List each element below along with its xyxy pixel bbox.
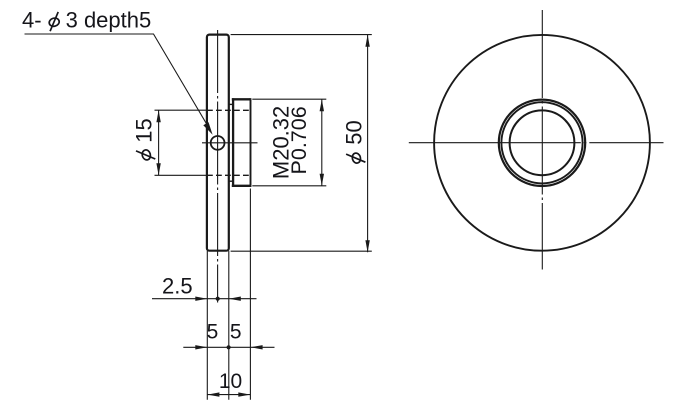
phi15 dimension extension lines [155,109,208,111]
disc outline side view [207,35,229,251]
bore hidden line bottom [207,174,250,176]
front view outer circle [434,35,650,251]
svg-text:3 depth5: 3 depth5 [66,7,152,32]
extension line D boss right face [249,189,251,400]
svg-text:10: 10 [219,370,242,393]
dimension 2.5 right-pointing arrow [195,297,207,301]
svg-text:15: 15 [132,118,157,142]
phi15 arrow down [156,163,160,175]
thread minor circle [501,102,582,183]
phi50 arrow down [365,240,369,252]
hole center plane vertical centerline [217,30,219,303]
svg-text:P0.706: P0.706 [287,106,311,174]
dimension 10 right arrow [238,392,250,396]
side view horizontal centerline [202,142,258,144]
bore hidden line top [207,109,250,111]
phi50 text [342,120,367,164]
front view horizontal centerline [409,142,664,144]
phi15 text [132,118,157,161]
leader line for label [25,34,209,128]
phi15 dimension line [158,110,160,175]
M20.32 arrow down [320,174,324,186]
phi50 dimension extension lines [231,34,372,36]
bore circle [510,110,575,175]
M20.32 arrow up [320,99,324,111]
phi3 hole circle [211,136,225,150]
phi50 arrow up [365,35,369,47]
phi50 dimension line [367,35,369,253]
dimension 10 line [207,394,250,396]
boss threaded hub outline [229,98,251,187]
dimension 2.5 tick dot [216,297,220,301]
label phi symbol [48,12,60,31]
M20.32 dimension line [321,99,323,186]
dimension 2.5 left-pointing arrow [229,297,241,301]
dimension 5 5 line [183,346,274,348]
svg-text:4-: 4- [22,7,42,32]
dimension 2.5 line [152,298,257,300]
svg-text:2.5: 2.5 [162,273,193,298]
svg-text:50: 50 [342,120,367,144]
svg-text:5: 5 [230,320,242,343]
svg-text:5: 5 [207,320,219,343]
extension line C disc right face [228,251,230,400]
extension line A left face [206,251,208,400]
front view vertical centerline [541,10,543,270]
dimension 10 left arrow [207,392,219,396]
phi15 arrow up [156,110,160,122]
thread major circle [499,100,585,186]
dimension 5 5 left-pointing arrow [251,345,263,349]
dimension 5 5 tick dot [227,345,231,349]
leader arrowhead [203,122,212,135]
dimension 5 5 right-pointing arrow [195,345,207,349]
M20.32 dimension extension lines [252,98,326,100]
